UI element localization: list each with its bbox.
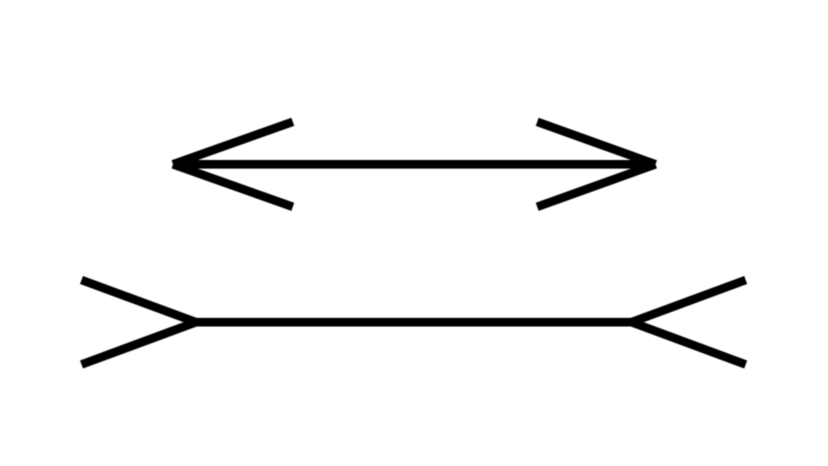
bottom left tail lower fin [82, 322, 197, 364]
top arrow left head upper fin [173, 122, 293, 165]
top arrow right head lower fin [537, 164, 655, 207]
bottom left tail upper fin [82, 280, 197, 322]
bottom line shaft [196, 318, 632, 327]
top arrow left head lower fin [173, 164, 293, 207]
top arrow right head upper fin [537, 122, 655, 165]
top arrow shaft [173, 160, 656, 169]
bottom right tail lower fin [632, 322, 746, 364]
bottom right tail upper fin [632, 280, 746, 322]
